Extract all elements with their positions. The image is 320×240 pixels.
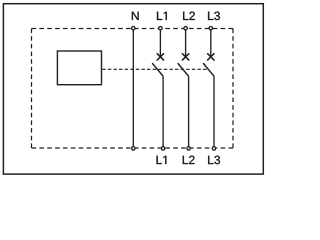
contact blade L3	[203, 63, 214, 76]
contact cross L2	[182, 54, 188, 60]
contact cross L3	[208, 54, 214, 60]
contact cross L1	[157, 54, 163, 60]
wire L3 (lower)	[213, 76, 215, 146]
terminal N (top)	[132, 27, 135, 30]
terminal L2 (bottom)	[187, 147, 190, 150]
label N (top)	[132, 12, 139, 20]
label L1 (top)	[157, 12, 167, 20]
label L2 (bottom)	[183, 156, 195, 164]
wire L3 (upper)	[210, 30, 212, 56]
wire L2 (lower)	[188, 76, 190, 146]
wire N	[132, 30, 134, 146]
mechanical linkage (dashed)	[102, 68, 208, 70]
wire L1 (upper)	[159, 30, 161, 56]
contact blade L1	[152, 63, 163, 76]
terminal L1 (bottom)	[161, 147, 164, 150]
label L2 (top)	[183, 12, 195, 20]
component box (contactor body)	[57, 51, 101, 85]
terminal L1 (top)	[159, 27, 162, 30]
wire L2 (upper)	[185, 30, 187, 56]
terminal L2 (top)	[184, 27, 187, 30]
terminal L3 (top)	[209, 27, 212, 30]
enclosure outline (dashed)	[32, 29, 234, 149]
label L1 (bottom)	[157, 156, 167, 164]
label L3 (bottom)	[208, 156, 220, 165]
terminal L3 (bottom)	[212, 147, 215, 150]
label L3 (top)	[208, 12, 220, 21]
contact blade L2	[178, 63, 189, 76]
wire L1 (lower)	[162, 76, 164, 146]
terminal N (bottom)	[132, 147, 135, 150]
